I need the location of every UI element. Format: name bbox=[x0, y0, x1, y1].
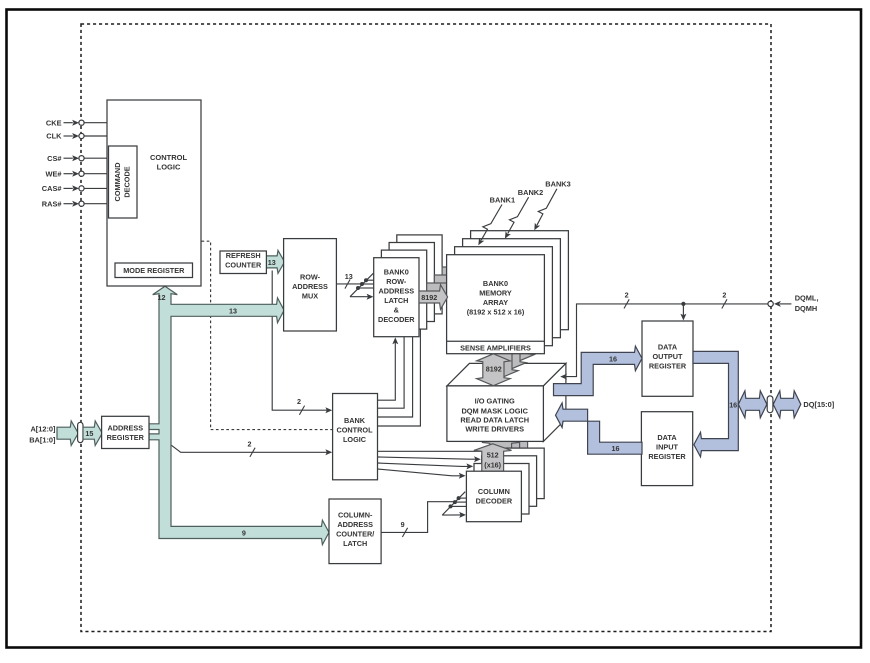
svg-text:ROW-: ROW- bbox=[386, 277, 407, 286]
svg-text:ADDRESS: ADDRESS bbox=[292, 282, 328, 291]
BANK1 label and pointer bbox=[478, 195, 515, 245]
svg-text:DQM MASK LOGIC: DQM MASK LOGIC bbox=[461, 407, 528, 416]
svg-text:ADDRESS: ADDRESS bbox=[337, 520, 373, 529]
svg-text:MODE REGISTER: MODE REGISTER bbox=[123, 266, 185, 275]
svg-text:OUTPUT: OUTPUT bbox=[653, 352, 684, 361]
DQ bus data output register to data input register bbox=[693, 351, 738, 457]
svg-text:15: 15 bbox=[85, 429, 93, 438]
column-address counter latch box bbox=[329, 499, 381, 564]
svg-text:9: 9 bbox=[242, 528, 246, 537]
13 arrow refresh counter to row-address mux bbox=[266, 250, 284, 273]
svg-text:DATA: DATA bbox=[658, 343, 678, 352]
BANK3 label and pointer bbox=[534, 179, 570, 230]
command decode box bbox=[109, 146, 138, 218]
512 echo arrows for banks 1-3 bbox=[482, 420, 536, 466]
address input arrow A BA bbox=[57, 421, 78, 446]
svg-text:2: 2 bbox=[722, 291, 726, 300]
8192 vertical echo arrows banks 1-3 bbox=[485, 330, 535, 378]
svg-text:13: 13 bbox=[229, 306, 237, 315]
svg-text:MEMORY: MEMORY bbox=[479, 289, 512, 298]
svg-text:BANK0: BANK0 bbox=[483, 279, 508, 288]
svg-text:LOGIC: LOGIC bbox=[157, 163, 181, 172]
dashed line control logic to bank control logic bbox=[202, 241, 333, 429]
svg-text:ADDRESS: ADDRESS bbox=[378, 286, 414, 295]
svg-text:WRITE DRIVERS: WRITE DRIVERS bbox=[465, 425, 524, 434]
svg-text:CONTROL: CONTROL bbox=[336, 426, 373, 435]
svg-text:16: 16 bbox=[729, 400, 737, 409]
svg-text:MUX: MUX bbox=[302, 291, 318, 300]
svg-text:8192: 8192 bbox=[486, 364, 502, 373]
DQ bidirectional arrows bbox=[738, 391, 801, 418]
refresh counter box bbox=[220, 251, 266, 274]
column decoder stacked boxes banks 1-3 bbox=[474, 448, 544, 514]
I/O gating DQM mask logic block (3D box) bbox=[447, 363, 566, 441]
svg-text:ROW-: ROW- bbox=[300, 272, 321, 281]
8192 bidirectional arrow sense amps to I/O gating bbox=[477, 354, 511, 386]
svg-text:512: 512 bbox=[487, 450, 499, 459]
svg-text:COLUMN-: COLUMN- bbox=[338, 510, 373, 519]
wires bank control logic to row-address latch stack bbox=[378, 315, 421, 427]
svg-text:LATCH: LATCH bbox=[343, 539, 367, 548]
svg-text:COLUMN: COLUMN bbox=[478, 487, 510, 496]
address bus teal trunk with 12 13 9 arrows bbox=[149, 286, 329, 544]
svg-text:CKE: CKE bbox=[46, 118, 62, 127]
16 read bus I/O gating to data output register bbox=[554, 346, 643, 396]
DQ pad capsule bbox=[767, 396, 773, 413]
wires bank control logic to column decoder stack bbox=[378, 451, 489, 479]
svg-text:I/O GATING: I/O GATING bbox=[475, 397, 515, 406]
address register box bbox=[102, 416, 149, 448]
bus width labels 12 13 9 bbox=[158, 293, 246, 537]
arrow into BANK0 row-address latch bbox=[392, 337, 398, 344]
svg-text:DECODER: DECODER bbox=[476, 497, 513, 506]
svg-text:DECODE: DECODE bbox=[123, 166, 132, 197]
svg-text:REGISTER: REGISTER bbox=[649, 362, 687, 371]
svg-text:2: 2 bbox=[625, 291, 629, 300]
svg-text:BA[1:0]: BA[1:0] bbox=[29, 435, 56, 444]
16 write bus data input register to I/O gating bbox=[556, 403, 643, 454]
13 wire row-address mux to latch stack with fork bbox=[336, 272, 374, 300]
bank0 memory array text bbox=[467, 279, 525, 316]
svg-text:(8192 x 512 x 16): (8192 x 512 x 16) bbox=[467, 307, 525, 316]
svg-text:DATA: DATA bbox=[657, 433, 677, 442]
svg-text:9: 9 bbox=[401, 520, 405, 529]
svg-text:13: 13 bbox=[345, 272, 353, 281]
svg-text:SENSE AMPLIFIERS: SENSE AMPLIFIERS bbox=[460, 343, 531, 352]
svg-text:READ DATA LATCH: READ DATA LATCH bbox=[460, 416, 529, 425]
A and BA input labels bbox=[29, 424, 56, 444]
15 arrow capsule to address register bbox=[83, 421, 102, 446]
I/O gating text bbox=[460, 397, 529, 434]
column decoder text bbox=[476, 487, 513, 506]
sense amplifiers label bbox=[460, 343, 531, 352]
svg-text:16: 16 bbox=[612, 444, 620, 453]
bank1-3 stacked boxes and 8192 echo arrows bbox=[381, 231, 568, 346]
svg-text:REGISTER: REGISTER bbox=[648, 452, 686, 461]
control logic box bbox=[107, 100, 201, 286]
8192 label bbox=[421, 293, 437, 302]
chip boundary dashed rectangle bbox=[81, 24, 771, 632]
2 wire to bank control logic upper bbox=[272, 271, 332, 415]
row-address mux box bbox=[284, 239, 337, 331]
column decoder front box bbox=[466, 471, 521, 522]
svg-text:16: 16 bbox=[609, 354, 617, 363]
bank control logic box bbox=[333, 394, 378, 480]
svg-text:13: 13 bbox=[268, 258, 276, 267]
svg-text:2: 2 bbox=[297, 397, 301, 406]
2 wire address register to bank control logic bbox=[171, 439, 332, 457]
svg-text:ARRAY: ARRAY bbox=[483, 298, 508, 307]
mode register box bbox=[115, 263, 193, 278]
512 arrow column decoder to I/O gating bbox=[474, 444, 512, 474]
9 wire column counter to column decoder with fork bbox=[381, 492, 466, 537]
control logic text bbox=[150, 153, 187, 172]
DQML DQMH labels bbox=[795, 294, 819, 314]
DQML DQMH wire with 2 labels bbox=[560, 291, 791, 380]
svg-text:2: 2 bbox=[248, 439, 252, 448]
svg-text:CAS#: CAS# bbox=[42, 184, 62, 193]
address input capsule bbox=[78, 422, 83, 442]
svg-text:DQML,: DQML, bbox=[795, 294, 819, 303]
svg-text:ADDRESS: ADDRESS bbox=[107, 423, 143, 432]
svg-text:12: 12 bbox=[158, 293, 166, 302]
svg-text:(x16): (x16) bbox=[484, 460, 501, 469]
command decode rotated text bbox=[113, 163, 132, 202]
8192 arrow latch to memory array bbox=[419, 285, 448, 310]
svg-text:CS#: CS# bbox=[47, 154, 61, 163]
svg-text:REGISTER: REGISTER bbox=[107, 433, 145, 442]
svg-text:CONTROL: CONTROL bbox=[150, 153, 187, 162]
svg-text:BANK: BANK bbox=[344, 416, 366, 425]
svg-text:COUNTER: COUNTER bbox=[225, 261, 262, 270]
bank0 row-address latch and decoder box bbox=[374, 258, 419, 337]
svg-text:DECODER: DECODER bbox=[378, 315, 415, 324]
svg-text:LOGIC: LOGIC bbox=[343, 435, 367, 444]
svg-text:A[12:0]: A[12:0] bbox=[30, 424, 56, 433]
svg-text:REFRESH: REFRESH bbox=[226, 251, 261, 260]
svg-text:BANK0: BANK0 bbox=[384, 267, 409, 276]
BANK2 label and pointer bbox=[505, 188, 543, 239]
bank0 memory array box bbox=[447, 255, 545, 354]
svg-text:BANK1: BANK1 bbox=[490, 195, 515, 204]
512 x16 labels bbox=[484, 450, 501, 469]
svg-text:DQ[15:0]: DQ[15:0] bbox=[803, 400, 834, 409]
svg-text:LATCH: LATCH bbox=[384, 296, 408, 305]
svg-text:BANK2: BANK2 bbox=[518, 188, 543, 197]
data input register box bbox=[641, 412, 692, 486]
svg-text:DQMH: DQMH bbox=[795, 304, 818, 313]
bank0 row-address latch text bbox=[378, 267, 415, 324]
svg-text:INPUT: INPUT bbox=[656, 442, 678, 451]
DQ label bbox=[803, 400, 834, 409]
svg-text:&: & bbox=[394, 305, 400, 314]
svg-text:WE#: WE# bbox=[45, 169, 61, 178]
svg-text:RAS#: RAS# bbox=[42, 199, 62, 208]
svg-text:BANK3: BANK3 bbox=[545, 179, 570, 188]
svg-text:8192: 8192 bbox=[421, 293, 437, 302]
svg-text:CLK: CLK bbox=[46, 132, 62, 141]
svg-text:COMMAND: COMMAND bbox=[113, 163, 122, 202]
input pins CKE CLK CS WE CAS RAS bbox=[42, 118, 107, 208]
svg-text:COUNTER/: COUNTER/ bbox=[336, 529, 374, 538]
data output register box bbox=[642, 321, 693, 396]
